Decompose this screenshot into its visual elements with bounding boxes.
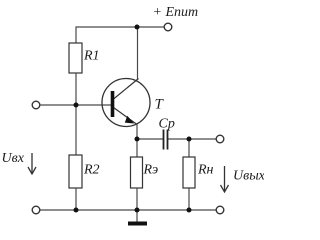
- svg-text:Uвх: Uвх: [2, 151, 25, 166]
- svg-text:Rн: Rн: [197, 163, 214, 178]
- svg-text:T: T: [155, 97, 165, 113]
- svg-text:Uвых: Uвых: [233, 169, 264, 184]
- svg-text:R2: R2: [83, 163, 100, 178]
- svg-text:R1: R1: [83, 49, 100, 64]
- svg-text:Cр: Cр: [159, 117, 175, 132]
- svg-text:+ Eпит: + Eпит: [153, 5, 199, 20]
- svg-text:Rэ: Rэ: [143, 163, 159, 178]
